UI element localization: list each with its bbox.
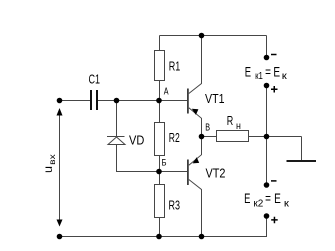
- svg-text:R3: R3: [169, 199, 181, 213]
- svg-text:R1: R1: [169, 60, 181, 74]
- svg-text:E: E: [273, 63, 280, 79]
- svg-text:н: н: [236, 121, 241, 132]
- svg-text:А: А: [164, 87, 169, 98]
- svg-text:VD: VD: [129, 134, 144, 148]
- svg-text:к: к: [282, 71, 288, 82]
- svg-text:VT2: VT2: [206, 167, 226, 181]
- svg-text:E: E: [244, 190, 250, 206]
- svg-text:E: E: [274, 190, 281, 206]
- svg-text:В: В: [205, 123, 210, 134]
- svg-text:=: =: [265, 191, 271, 206]
- svg-text:=: =: [265, 64, 271, 79]
- svg-text:u: u: [41, 166, 55, 173]
- svg-text:VT1: VT1: [205, 92, 225, 106]
- svg-text:вх: вх: [47, 153, 57, 164]
- svg-text:C1: C1: [89, 73, 101, 87]
- svg-text:R: R: [227, 114, 234, 128]
- svg-text:к1: к1: [255, 71, 263, 82]
- svg-text:к: к: [284, 199, 290, 210]
- svg-text:E: E: [245, 63, 251, 79]
- svg-text:R2: R2: [169, 131, 180, 145]
- svg-text:к2: к2: [253, 199, 263, 210]
- svg-text:Б: Б: [162, 158, 167, 169]
